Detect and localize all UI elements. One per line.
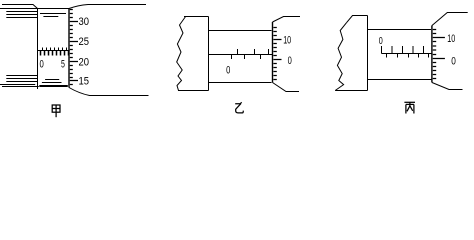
svg-text:10: 10 — [283, 35, 291, 47]
svg-text:0: 0 — [379, 35, 383, 47]
svg-text:0: 0 — [40, 58, 44, 70]
svg-text:25: 25 — [79, 36, 90, 48]
svg-text:15: 15 — [79, 76, 90, 88]
svg-text:30: 30 — [79, 16, 90, 28]
svg-text:0: 0 — [226, 64, 230, 76]
svg-text:20: 20 — [79, 57, 90, 69]
svg-text:10: 10 — [447, 33, 455, 45]
svg-text:0: 0 — [451, 56, 456, 68]
svg-text:0: 0 — [288, 55, 292, 67]
svg-text:5: 5 — [61, 58, 65, 70]
